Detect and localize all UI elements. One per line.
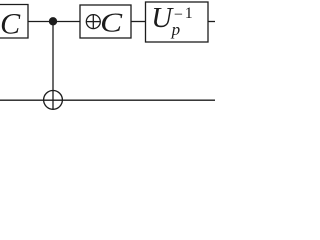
svg-text:p: p	[171, 20, 181, 39]
svg-text:1: 1	[185, 5, 193, 22]
svg-text:C: C	[0, 7, 21, 40]
svg-text:C: C	[100, 7, 123, 37]
